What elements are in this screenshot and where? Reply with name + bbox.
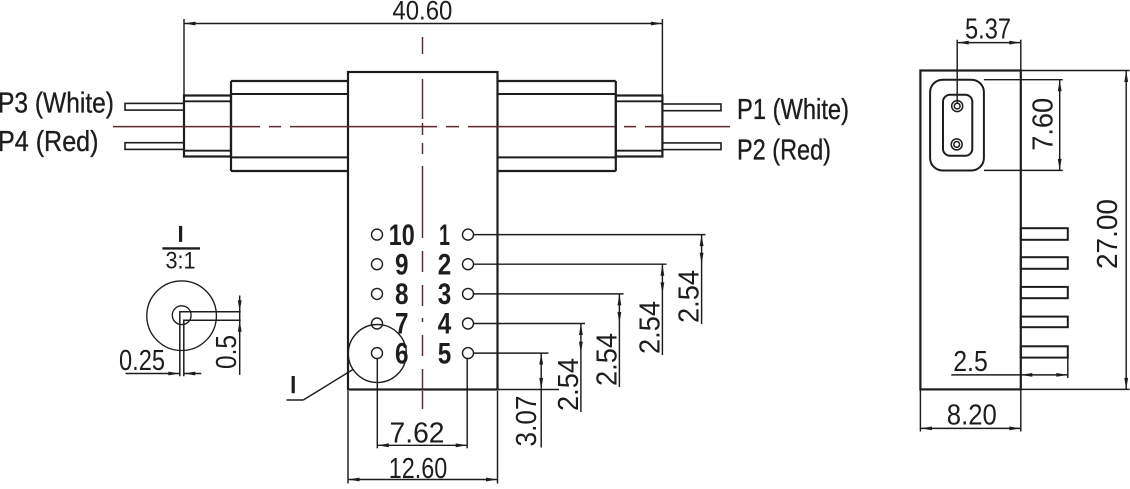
svg-text:2.54: 2.54 [591, 333, 623, 386]
side view pin 2 [1021, 257, 1068, 269]
detail: pin hole outer circle [147, 281, 217, 351]
extension line from pin 4 [474, 323, 586, 325]
svg-text:2.54: 2.54 [553, 358, 585, 411]
pin hole 2 [463, 259, 474, 270]
dimension 7.60 [984, 80, 1063, 171]
svg-text:8.20: 8.20 [947, 400, 997, 432]
port label P2 [737, 134, 831, 166]
dimension 8.20 [920, 389, 1020, 431]
extension line from pin 2 [474, 263, 667, 265]
svg-text:P2 (Red): P2 (Red) [737, 134, 831, 166]
svg-text:P1 (White): P1 (White) [737, 94, 849, 126]
svg-text:40.60: 40.60 [392, 0, 452, 25]
fiber P1 [662, 104, 721, 111]
switch body (central package, top view) [348, 72, 498, 390]
pin number 8 [395, 278, 409, 311]
svg-text:8: 8 [395, 278, 409, 311]
extension line from pin 3 [474, 293, 624, 295]
svg-text:7: 7 [395, 308, 409, 341]
svg-text:0.5: 0.5 [211, 335, 243, 369]
dimension 2.5 (pin length) [951, 346, 1068, 378]
fiber P3 [125, 103, 184, 110]
pin hole 3 [463, 288, 474, 299]
dimension 27.00 [1021, 71, 1130, 390]
fiber P4 [125, 143, 184, 150]
mounting slot outer [930, 80, 984, 171]
dimension 2.54 (pin pitch) [591, 294, 623, 387]
vertical centerline [422, 37, 424, 410]
pin hole 4 [463, 318, 474, 329]
pin number 2 [438, 248, 452, 281]
dimension 7.62 [377, 358, 467, 450]
pin number 3 [438, 278, 452, 311]
svg-text:1: 1 [439, 219, 450, 252]
mounting slot inner [943, 95, 972, 156]
dimension 2.54 (pin pitch) [553, 324, 585, 413]
dimension 0.5 (flange thickness) [211, 296, 243, 375]
pin hole 1 [463, 229, 474, 240]
svg-text:7.60: 7.60 [1027, 98, 1059, 151]
pin hole 10 [372, 229, 383, 240]
svg-text:2: 2 [438, 248, 452, 281]
svg-text:4: 4 [438, 308, 452, 341]
leader line to detail label I [287, 370, 353, 401]
svg-text:2.5: 2.5 [953, 346, 988, 378]
pin hole 6 [372, 348, 383, 359]
switch housing (horizontal body) [231, 81, 616, 171]
pin number 10 [389, 219, 415, 252]
svg-text:3: 3 [438, 278, 452, 311]
pin number 6 [395, 337, 409, 370]
pin hole 5 [463, 348, 474, 359]
dimension 0.25 (pin width) [119, 345, 201, 377]
detail: pin hole inner circle [172, 306, 191, 325]
svg-text:P3 (White): P3 (White) [0, 87, 114, 119]
svg-text:5.37: 5.37 [965, 14, 1011, 46]
detail view title underline [162, 247, 200, 249]
detail label I [292, 376, 295, 393]
screw upper [952, 101, 963, 112]
dimension 2.54 (pin pitch) [674, 235, 706, 324]
pin number 5 [438, 337, 452, 370]
detail view title I [179, 226, 182, 242]
pin number 7 [395, 308, 409, 341]
pin hole 7 [372, 318, 383, 329]
svg-text:10: 10 [389, 219, 415, 252]
screw lower [951, 139, 962, 150]
dimension 40.60 [184, 0, 662, 95]
side view package outline [920, 71, 1020, 390]
pin number 1 [439, 219, 450, 252]
dimension 12.60 [348, 391, 498, 485]
dimension 2.54 (pin pitch) [634, 264, 666, 355]
pin number 9 [395, 248, 409, 281]
port label P3 [0, 87, 114, 119]
svg-text:3.07: 3.07 [511, 396, 543, 447]
detail circle I around pin 6 [348, 325, 406, 383]
port label P4 [0, 126, 99, 158]
extension line from pin 1 [474, 234, 706, 236]
side view pin 5 [1021, 346, 1068, 357]
side view pin 3 [1021, 287, 1068, 298]
pin number 4 [438, 308, 452, 341]
side view pin 1 [1021, 228, 1068, 240]
dimension 5.37 [957, 14, 1021, 104]
dimension 3.07 (pin pitch) [511, 353, 543, 447]
pin hole 9 [372, 259, 383, 270]
svg-text:P4 (Red): P4 (Red) [0, 126, 99, 158]
left ferrule [184, 96, 231, 157]
pin hole 8 [372, 288, 383, 299]
svg-text:5: 5 [438, 337, 452, 370]
svg-text:27.00: 27.00 [1092, 199, 1124, 269]
svg-text:0.25: 0.25 [119, 345, 165, 377]
svg-text:2.54: 2.54 [634, 301, 666, 354]
fiber P2 [662, 143, 721, 150]
svg-text:3:1: 3:1 [166, 248, 196, 275]
port label P1 [737, 94, 849, 126]
svg-text:7.62: 7.62 [390, 418, 445, 450]
svg-text:2.54: 2.54 [674, 270, 706, 323]
extension line from pin 5 [474, 352, 549, 354]
right ferrule [616, 96, 663, 157]
svg-text:9: 9 [395, 248, 409, 281]
svg-text:12.60: 12.60 [389, 453, 448, 484]
horizontal centerline [113, 126, 730, 128]
detail view scale 3:1 [166, 248, 196, 275]
extension of body bottom edge [498, 389, 560, 391]
detail: pin cross-section [180, 312, 241, 377]
side view pin 4 [1021, 317, 1068, 328]
